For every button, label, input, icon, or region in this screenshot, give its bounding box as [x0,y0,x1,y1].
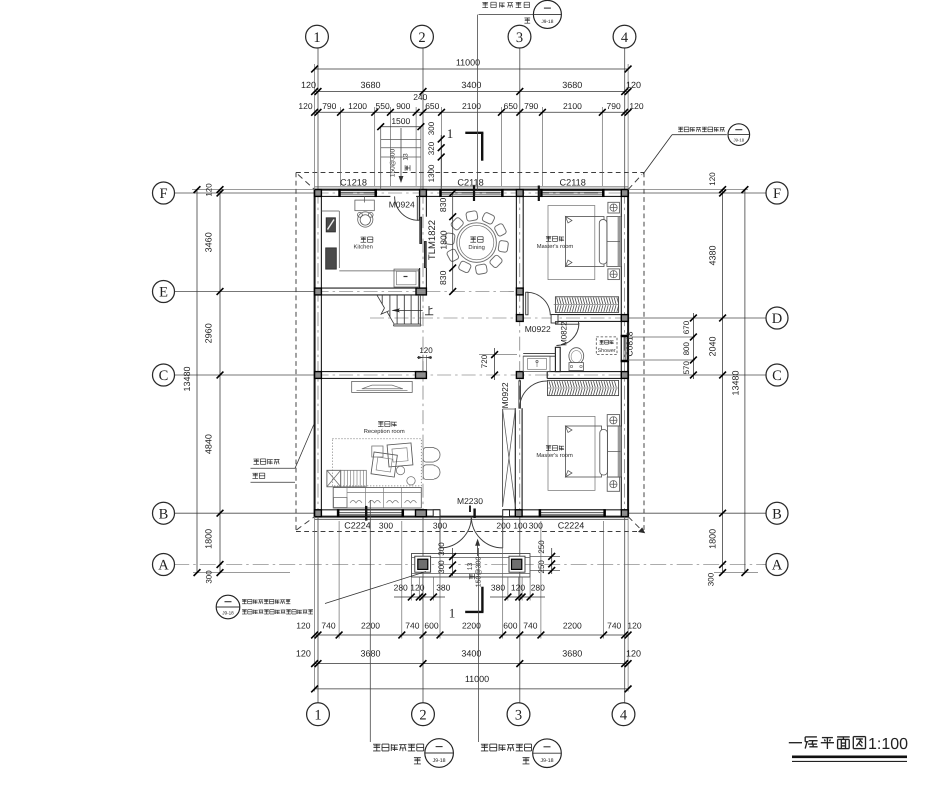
window sub chain right 670-800-570 [692,313,694,379]
extension lines top [314,64,316,190]
grid bubble D right [766,307,788,329]
left exterior wall along axis 1 [314,190,316,517]
axis line 4 vertical [624,47,626,190]
svg-text:300: 300 [529,520,543,530]
svg-text:2040: 2040 [708,336,718,356]
svg-text:D: D [772,311,782,327]
svg-text:3680: 3680 [562,649,582,659]
dimension line 3680-3400-3680 top [315,91,628,93]
column axis2-C [416,372,427,379]
roof corner diagonal bottom-right + drainage arrow [628,517,641,530]
svg-text:250: 250 [537,540,546,554]
kitchen appliance dark [326,248,337,269]
kitchen counter [338,211,340,268]
grid bubble 1 top [306,25,329,48]
grid bubble B right [766,502,788,524]
porch vertical dim 250 250 right [551,548,553,574]
column axis1-C [315,372,322,379]
svg-text:M0924: M0924 [389,200,415,210]
interior wall C left reception top [321,371,426,373]
dining round table [457,223,497,263]
hall armchair south [423,465,436,480]
dim 720 shower niche [479,354,517,356]
svg-text:380: 380 [436,582,450,592]
coffee table group [387,443,413,467]
master bottom bedside table south [607,477,619,491]
grid bubble A right [766,554,788,576]
svg-text:TLM1822: TLM1822 [427,220,438,260]
svg-text:Master's room: Master's room [537,244,574,250]
master top bedside table south [608,269,620,280]
grid bubble F left [153,182,175,204]
roof overhang dashed outline [296,172,644,174]
column axis1-B [315,510,322,517]
room label dining [470,236,476,238]
sliding door TLM1822 [420,217,422,243]
svg-text:120: 120 [626,649,641,659]
svg-text:3460: 3460 [204,232,214,252]
sofa sectional [333,488,421,509]
tall X panel beside axis3 lower wall [502,409,504,507]
steps centre line with down arrow [400,128,402,176]
detail dimension chain bottom [315,634,628,636]
svg-text:Reception room: Reception room [364,428,405,435]
svg-text:2: 2 [419,707,426,723]
svg-text:830: 830 [438,198,448,213]
svg-text:720: 720 [480,354,489,368]
axis line 3 vertical [519,47,521,190]
hall armchair north [423,447,436,462]
svg-text:2: 2 [418,30,425,46]
outer sill line above top wall [315,186,628,188]
svg-text:120: 120 [301,80,316,90]
svg-text:13480: 13480 [731,370,741,395]
svg-text:570: 570 [682,360,691,374]
window C0818 right wall [627,337,629,360]
svg-text:13: 13 [467,563,474,571]
roof corner diagonal bottom-left [297,517,315,530]
master bottom wardrobe hatched [548,380,619,395]
svg-text:A: A [772,558,783,574]
axis line B horizontal [173,512,314,514]
svg-text:3680: 3680 [562,80,582,90]
kitchen fridge [394,269,419,287]
svg-text:Kitchen: Kitchen [354,244,373,251]
svg-text:1: 1 [449,606,456,621]
svg-text:120: 120 [298,101,312,111]
svg-text:1: 1 [313,30,320,46]
interior wall E kitchen bottom [321,287,426,289]
svg-text:Shower: Shower [598,348,616,354]
svg-text:550: 550 [376,101,390,111]
dimension 1500 steps [381,126,421,128]
svg-text:1: 1 [447,126,454,141]
svg-text:240: 240 [413,92,427,102]
note splash apron top right [678,126,683,128]
dining chairs ring [498,240,509,252]
svg-text:11000: 11000 [465,674,489,684]
svg-text:2100: 2100 [563,101,582,111]
column axis3-F [516,190,523,197]
svg-text:120: 120 [708,172,717,186]
entrance jamb blocks [433,510,440,517]
window C2224 bottom wall right [541,515,604,517]
axis line 2 vertical [422,47,424,190]
window C2118 top wall centre [442,189,502,191]
svg-text:120: 120 [626,80,641,90]
svg-text:300: 300 [433,520,447,530]
svg-text:M2230: M2230 [457,496,483,506]
svg-text:J9-18: J9-18 [541,758,554,764]
svg-text:380: 380 [491,582,505,592]
grid bubble 3 bottom [507,703,530,726]
svg-text:C2224: C2224 [558,520,585,530]
leader tick through right window [538,186,540,202]
svg-text:300: 300 [379,520,393,530]
svg-text:B: B [772,506,782,522]
svg-text:1300: 1300 [427,164,436,182]
svg-text:Master's room: Master's room [536,453,573,459]
svg-text:M0822: M0822 [560,321,569,346]
svg-text:1200: 1200 [348,101,367,111]
svg-text:790: 790 [524,101,538,111]
svg-text:13: 13 [403,153,410,161]
right exterior wall along axis 4 [627,190,629,517]
door M0822 shower [555,322,578,325]
master bottom rug [548,416,595,490]
svg-text:300: 300 [437,542,446,556]
svg-text:A: A [158,558,169,574]
door M2230 entrance double [439,517,441,548]
room label reception [378,421,384,423]
kitchen basin round [358,212,373,227]
room label master top [546,235,551,237]
interior wall axis2 kitchen-dining [419,196,421,216]
interior wall C right shower bottom [547,371,621,373]
grid bubble C right [766,364,788,386]
svg-text:3680: 3680 [360,80,380,90]
svg-text:J9-18: J9-18 [222,610,234,615]
grid bubble 1 bottom [307,703,330,726]
dimension line 13480 left [196,190,198,573]
dimension line 11000 top [315,68,628,70]
svg-text:650: 650 [504,101,518,111]
staircase break line [377,295,385,308]
column axis2-F [420,190,427,197]
outer sill line below bottom wall [315,518,628,520]
svg-text:120: 120 [296,649,311,659]
master bottom bedside table north [607,415,619,426]
interior wall axis3 lower reception-master [514,408,516,510]
axis line A horizontal [173,564,767,566]
svg-text:C: C [772,368,782,384]
svg-text:3400: 3400 [461,80,481,90]
grid bubble 3 top [508,25,531,48]
roof corner diagonal top-left [298,175,315,190]
svg-text:120: 120 [296,621,310,631]
svg-text:C2118: C2118 [457,177,483,187]
porch decorative column right [509,556,525,572]
svg-text:2200: 2200 [563,621,582,631]
svg-text:1: 1 [314,707,321,723]
svg-text:1:100: 1:100 [868,736,908,753]
master top bed [566,217,605,267]
svg-text:670: 670 [682,320,691,334]
column axis3-D [516,315,523,322]
porch vertical dim 300 300 left [452,548,454,576]
svg-text:F: F [773,186,781,202]
note decorative column bottom left [216,595,240,619]
porch slab side lines extending right [530,555,560,557]
detail dimension chain top [315,111,628,113]
porch slab steps [412,554,531,578]
porch note 13 steps [470,574,475,579]
master bottom bed [566,426,602,477]
vertical mini chain 300-320-1300 [440,135,442,190]
master top rug [548,206,595,280]
extension lines right [628,189,748,191]
svg-text:13480: 13480 [182,366,192,391]
dimension line 11000 bottom [315,688,628,690]
svg-text:300: 300 [205,570,214,584]
svg-text:740: 740 [523,621,537,631]
svg-text:100: 100 [513,520,527,530]
svg-text:C1218: C1218 [340,177,367,187]
svg-text:790: 790 [607,101,621,111]
svg-text:1800: 1800 [439,230,449,249]
svg-text:740: 740 [405,621,419,631]
column axis4-C [621,372,628,379]
svg-text:J9-18: J9-18 [433,758,446,764]
staircase bottom lip [394,323,421,325]
reception shelf slats [341,470,367,487]
interior wall axis3 dining-master [515,196,517,288]
door M0922 master top (at D wall) [526,292,528,315]
column axis1-F [315,190,322,197]
svg-text:790: 790 [322,101,336,111]
toilet [569,348,584,365]
svg-text:250: 250 [537,560,546,574]
window C1218 top wall [341,189,375,191]
column ax3-C [516,372,523,379]
staircase up label [428,306,430,315]
title first floor plan 1:100 [789,742,802,744]
column axis4-F [621,190,628,197]
door M0924 kitchen [417,196,419,220]
svg-text:J9-18: J9-18 [734,137,745,142]
note carving line left [253,458,259,460]
grid bubble B left [153,502,175,524]
note wall detail 2 top [482,1,488,3]
outdoor steps at kitchen door [380,127,382,190]
reception rug dotted [332,439,421,486]
dim chain 830-1800-830 [452,193,454,292]
svg-text:Dining: Dining [468,244,484,251]
grid bubble 2 top [411,25,434,48]
svg-text:600: 600 [503,621,517,631]
svg-text:M0922: M0922 [525,324,551,334]
room label kitchen [361,236,367,238]
svg-text:B: B [159,506,169,522]
column axis1-E [315,288,322,295]
grid bubble E left [153,281,175,303]
svg-text:4840: 4840 [204,434,214,454]
svg-text:300: 300 [437,560,446,574]
column axis3-E [516,288,523,295]
kitchen hob dark [326,218,335,232]
grid bubble 4 bottom [612,703,635,726]
svg-text:280: 280 [394,582,408,592]
axis line E horizontal [173,291,314,293]
svg-text:120: 120 [511,582,525,592]
door M0922 master bottom (at C wall) [519,381,521,409]
tv cabinet [352,381,413,392]
column axis4-B [621,510,628,517]
dim 120 at C wall end [422,355,424,372]
svg-text:E: E [159,285,168,301]
roof corner diagonal top-right [628,175,642,190]
column axis4-D [621,315,628,322]
interior wall D master bottom [551,314,621,316]
reception sideboard with X [327,470,341,487]
svg-text:4380: 4380 [708,245,718,265]
grid bubble F right [766,182,788,204]
svg-text:11000: 11000 [456,58,480,68]
dimension chain left [219,190,221,573]
svg-text:1800: 1800 [708,529,718,549]
interior wall axis3 E-D segment [515,295,517,315]
axis line 1 vertical [317,47,319,190]
axis line F horizontal [173,192,314,194]
axis line D horizontal [370,317,628,319]
svg-text:C2224: C2224 [344,520,371,530]
extension lines left [192,189,315,191]
svg-text:740: 740 [321,621,335,631]
svg-text:J9-18: J9-18 [541,19,553,25]
svg-text:120: 120 [629,101,643,111]
staircase up arrow [393,309,423,311]
grid bubble A left [153,554,175,576]
master top wardrobe hatched [555,297,618,313]
shower room label box [596,337,617,355]
shower stub wall [555,347,560,371]
svg-text:1500: 1500 [391,116,410,126]
note wall detail 3 bottom [365,506,367,521]
svg-text:4: 4 [621,30,629,46]
steps note 13 steps [405,165,410,170]
porch decorative column left [415,556,431,572]
top exterior wall along axis F [315,189,628,191]
window C2118 top wall right [542,189,602,191]
svg-text:1800: 1800 [204,529,214,549]
dimension line 3680-3400-3680 bottom [315,663,628,665]
svg-text:120: 120 [419,346,433,355]
svg-text:300: 300 [707,572,716,586]
shower vanity counter [523,356,550,371]
svg-text:F: F [159,186,167,202]
column axis3-B [515,510,522,517]
svg-text:320: 320 [427,141,436,155]
svg-text:800: 800 [682,341,691,355]
svg-text:C2118: C2118 [559,177,585,187]
svg-text:120: 120 [410,582,424,592]
room label master bottom [546,445,551,447]
svg-text:3: 3 [516,30,523,46]
svg-text:600: 600 [424,621,438,631]
svg-text:M0922: M0922 [500,382,510,408]
axis line C horizontal [173,374,314,376]
svg-text:300: 300 [427,121,436,135]
grid bubble 2 bottom [412,703,435,726]
porch steps up arrow [477,543,479,556]
note wall detail 1 bottom [478,548,480,742]
column axis2-E [416,288,426,295]
svg-text:C0818: C0818 [624,331,634,356]
svg-text:2960: 2960 [204,323,214,343]
svg-text:120: 120 [205,183,214,197]
svg-text:2100: 2100 [462,101,481,111]
svg-text:900: 900 [396,101,410,111]
column axis2-B [416,510,427,517]
window C2224 bottom wall left [339,515,402,517]
svg-text:280: 280 [531,582,545,592]
dimension chain right [722,190,724,573]
dimension line 13480 right [744,190,746,573]
svg-text:740: 740 [607,621,621,631]
svg-text:C: C [159,368,169,384]
svg-text:830: 830 [438,270,448,285]
porch sub dims [410,577,412,601]
staircase treads [381,295,383,304]
master top bedside table north [608,202,620,213]
shower niche wall [523,353,555,355]
bottom exterior wall along axis B [315,516,628,518]
kitchen sink [355,200,374,211]
grid bubble 4 top [613,25,636,48]
svg-text:200: 200 [496,520,510,530]
svg-text:4: 4 [620,707,628,723]
extension lines bottom [314,517,316,692]
grid bubble C left [153,364,175,386]
svg-text:3: 3 [515,707,522,723]
svg-text:650: 650 [425,101,439,111]
svg-text:120: 120 [627,621,641,631]
